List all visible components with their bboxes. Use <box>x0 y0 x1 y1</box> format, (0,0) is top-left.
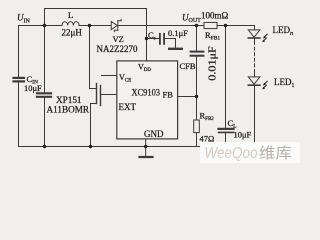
wire ground rail <box>19 146 255 148</box>
svg-text:CFB: CFB <box>180 61 196 71</box>
svg-text:A11BOMR: A11BOMR <box>47 105 90 115</box>
svg-text:FB: FB <box>163 90 174 100</box>
wire GND pin stub <box>145 139 147 156</box>
svg-text:GND: GND <box>144 129 164 139</box>
wire gate EXT <box>101 94 117 96</box>
node rail junction B <box>89 145 92 148</box>
wire top rail VIN to VDD <box>45 9 147 62</box>
LED LED1 <box>248 77 260 85</box>
svg-text:WeeQoo: WeeQoo <box>205 145 258 162</box>
capacitor CIN 10uF <box>14 78 25 82</box>
svg-text:10μF: 10μF <box>24 83 42 93</box>
transistor Q1 XP151 A11BOMR MOSFET <box>91 84 101 147</box>
wire FB pin to divider <box>178 96 197 98</box>
inductor L1 22uH <box>62 22 79 26</box>
svg-text:NA2Z2270: NA2Z2270 <box>97 44 138 54</box>
svg-text:10μF: 10μF <box>234 130 252 140</box>
LED arrows n <box>264 34 268 41</box>
node VIN junction <box>43 24 46 27</box>
wire dashed LED series <box>254 38 256 42</box>
svg-text:100mΩ: 100mΩ <box>201 11 229 21</box>
resistor RFB2 47 Ohm vertical <box>194 97 200 147</box>
node CL junction <box>224 24 227 27</box>
LED arrows 1 <box>264 81 268 88</box>
ground symbol <box>140 156 153 158</box>
wire RFB1 to LED branch corner <box>217 26 255 30</box>
wire inductor to diode <box>79 25 111 27</box>
svg-text:22μH: 22μH <box>62 28 83 38</box>
diode VZ NA2Z2270 <box>111 19 121 31</box>
node switch junction <box>88 24 91 27</box>
svg-text:XP151: XP151 <box>56 95 82 105</box>
svg-text:L: L <box>68 10 73 20</box>
ground bar for Cs <box>169 48 182 50</box>
wire diode to VOUT node <box>118 25 204 27</box>
capacitor Cs 0.1uF branch <box>147 34 176 48</box>
wire switch node down to MOSFET drain <box>90 26 97 89</box>
IC U1 XC9103 <box>117 61 178 139</box>
wire main UIN horizontal <box>19 25 63 27</box>
node rail junction GND <box>144 145 147 148</box>
svg-text:XC9103: XC9103 <box>132 87 161 97</box>
svg-text:0.1μF: 0.1μF <box>168 28 188 38</box>
node rail junction A <box>43 145 46 148</box>
svg-text:EXT: EXT <box>119 102 137 112</box>
wire left vertical from UIN down <box>18 26 20 78</box>
wire VCE pin <box>102 75 117 77</box>
wire second vertical from VIN junction down <box>44 9 46 93</box>
node FB junction <box>195 95 198 98</box>
resistor RFB1 100mOhm <box>204 22 217 28</box>
capacitor CFB 0.01uF vertical branch <box>191 26 204 97</box>
LED LEDn <box>248 30 260 38</box>
capacitor C2 10uF <box>37 93 51 97</box>
capacitor CL 10uF vertical <box>219 26 234 147</box>
node VDD junction <box>145 37 148 40</box>
svg-text:VZ: VZ <box>113 34 124 44</box>
svg-text:维库: 维库 <box>259 145 292 162</box>
svg-text:0.01μF: 0.01μF <box>208 46 219 81</box>
node VOUT junction <box>195 24 198 27</box>
wire LED string bottom <box>254 85 256 146</box>
watermark background <box>200 142 300 163</box>
